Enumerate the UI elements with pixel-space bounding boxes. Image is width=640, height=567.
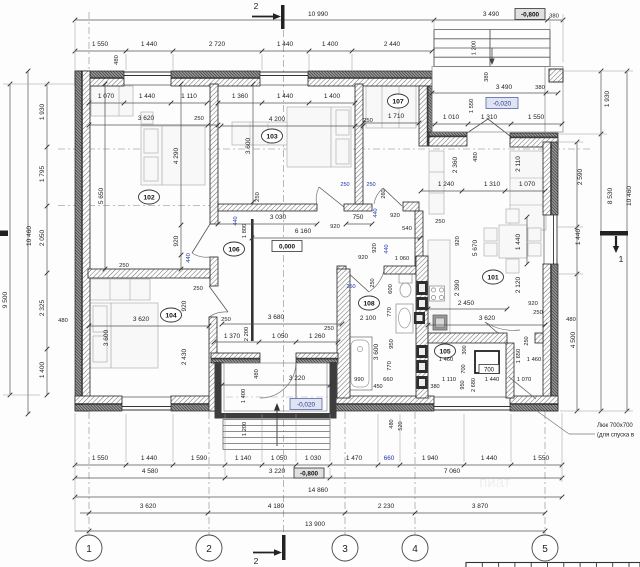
svg-text:1 440: 1 440	[141, 41, 158, 48]
outer wall top-left segment	[75, 71, 124, 78]
axis bubble 1	[76, 535, 102, 561]
svg-text:1 460: 1 460	[439, 357, 454, 363]
svg-text:108: 108	[363, 300, 375, 307]
svg-text:1 140: 1 140	[235, 455, 252, 462]
svg-text:3 620: 3 620	[133, 316, 150, 323]
extension lines top windows	[125, 54, 127, 70]
room label 104	[161, 308, 182, 322]
svg-text:250: 250	[366, 182, 375, 188]
svg-text:920: 920	[173, 235, 180, 246]
svg-text:1 110: 1 110	[181, 93, 197, 100]
svg-text:1: 1	[619, 254, 624, 264]
svg-text:1 550: 1 550	[469, 99, 475, 114]
bathtub room 108	[348, 337, 372, 390]
axis 2 dashed line bottom	[208, 412, 210, 536]
interior wall stub below door 102	[210, 257, 218, 286]
porch interior dash line	[226, 396, 328, 398]
svg-text:660: 660	[384, 455, 395, 462]
svg-text:102: 102	[143, 194, 155, 201]
outer wall top-middle segment	[171, 71, 260, 78]
svg-text:2 450: 2 450	[458, 300, 475, 307]
svg-text:5 670: 5 670	[472, 239, 479, 256]
svg-text:104: 104	[165, 312, 177, 319]
window W2 room 103	[260, 71, 308, 73]
svg-text:1 440: 1 440	[277, 41, 294, 48]
svg-text:2 430: 2 430	[181, 348, 188, 365]
svg-text:950: 950	[460, 380, 466, 389]
svg-text:750: 750	[353, 214, 364, 221]
top tier 3 dims room 102	[89, 102, 207, 104]
porch west wall	[215, 362, 222, 419]
svg-text:480: 480	[254, 369, 260, 379]
svg-text:250: 250	[194, 116, 204, 122]
outer wall bottom-right segment	[510, 405, 558, 412]
svg-text:2: 2	[206, 544, 212, 555]
svg-text:4 580: 4 580	[142, 468, 159, 475]
bottom tier 4 dims	[80, 512, 545, 514]
svg-text:1: 1	[86, 544, 92, 555]
svg-text:520: 520	[398, 421, 404, 430]
svg-text:10 460: 10 460	[626, 186, 633, 206]
axis 1 dashed line bottom	[88, 412, 90, 536]
interior wall bathroom north east piece	[384, 266, 416, 274]
svg-text:700: 700	[484, 367, 495, 373]
porch south wall west piece	[211, 359, 260, 363]
svg-text:1 460: 1 460	[527, 357, 542, 363]
room 102 interior dims	[104, 84, 106, 269]
svg-text:920: 920	[181, 300, 188, 311]
svg-text:1 440: 1 440	[141, 455, 158, 462]
svg-text:4: 4	[412, 544, 418, 555]
entry wardrobe room 101	[510, 151, 546, 230]
svg-text:4 200: 4 200	[269, 116, 286, 123]
door 105 extra leaf	[509, 377, 536, 399]
svg-text:4 500: 4 500	[570, 331, 577, 348]
door room 105 boiler	[485, 322, 506, 340]
section 1 right mark	[600, 231, 628, 236]
svg-text:250: 250	[255, 192, 261, 202]
svg-text:1 795: 1 795	[39, 165, 46, 182]
interior wall room104 east lower	[209, 317, 217, 411]
svg-text:1 240: 1 240	[438, 181, 455, 188]
svg-text:600: 600	[388, 284, 394, 294]
horizontal dash-dot reference line mid	[58, 205, 210, 207]
svg-text:250: 250	[221, 317, 231, 323]
axis 4 dashed line bottom	[414, 412, 416, 536]
right tier 3 dim 10 460	[626, 71, 628, 411]
corridor interior dims	[218, 223, 317, 225]
wardrobe room 102	[91, 86, 133, 116]
svg-text:2 680: 2 680	[471, 378, 477, 392]
right tier 2 dims 1 930 8 530	[600, 71, 602, 411]
svg-text:1 800: 1 800	[242, 224, 248, 239]
svg-text:3 680: 3 680	[268, 314, 285, 321]
svg-text:2 100: 2 100	[360, 315, 377, 322]
svg-text:1 440: 1 440	[277, 93, 294, 100]
room 104 interior dims	[89, 325, 209, 327]
axis bubble 4	[402, 535, 428, 561]
svg-text:250: 250	[533, 310, 543, 316]
svg-text:2 360: 2 360	[452, 156, 459, 173]
top-right entrance stairs	[434, 29, 550, 31]
top tier 3 dims room 103	[218, 102, 355, 104]
svg-text:4 290: 4 290	[173, 147, 180, 164]
svg-text:2: 2	[254, 1, 259, 11]
axis bubble 5	[532, 535, 558, 561]
outer wall top-right segment	[308, 71, 432, 78]
toilet room 108	[399, 273, 412, 283]
svg-text:1 440: 1 440	[139, 93, 156, 100]
bed room 103	[287, 107, 351, 167]
extension lines bottom	[125, 414, 127, 462]
window W1 room 102	[124, 71, 171, 73]
room 103 interior dims	[252, 84, 254, 204]
hatch note leader line	[537, 411, 569, 434]
hall partition line	[251, 219, 254, 341]
svg-text:1 110: 1 110	[442, 377, 456, 383]
top porch slab outline	[432, 67, 563, 133]
svg-text:700: 700	[461, 364, 467, 373]
svg-text:-0,800: -0,800	[300, 470, 319, 477]
svg-text:0,000: 0,000	[279, 243, 295, 250]
svg-text:1 440: 1 440	[481, 455, 498, 462]
right tier 1 dims 2 590 1 440 4 500	[576, 142, 578, 411]
svg-text:106: 106	[228, 246, 240, 253]
svg-text:1 200: 1 200	[472, 41, 478, 56]
svg-text:1 310: 1 310	[484, 181, 501, 188]
porch interior dims	[214, 341, 338, 343]
dining table room 101	[499, 225, 527, 258]
svg-text:1 470: 1 470	[346, 455, 363, 462]
section 2 mark top	[281, 5, 285, 29]
svg-text:250: 250	[324, 326, 334, 332]
dresser room 103	[232, 122, 287, 145]
svg-text:1 050: 1 050	[272, 333, 289, 340]
svg-text:950: 950	[389, 339, 395, 349]
svg-text:-0,020: -0,020	[297, 401, 316, 408]
vent shaft blocks	[417, 281, 428, 295]
axis 1 dashed line top	[88, 12, 90, 70]
svg-text:250: 250	[119, 263, 129, 269]
svg-text:6 160: 6 160	[295, 228, 312, 235]
entry door leaf	[467, 119, 488, 133]
svg-text:1 070: 1 070	[98, 93, 115, 100]
svg-text:260: 260	[381, 189, 387, 198]
svg-text:(для спуска в: (для спуска в	[597, 433, 634, 439]
svg-text:2 110: 2 110	[515, 156, 522, 172]
svg-text:450: 450	[373, 384, 382, 390]
svg-text:1 260: 1 260	[309, 333, 326, 340]
svg-text:2 720: 2 720	[209, 41, 226, 48]
window W3 room 104	[122, 409, 171, 411]
svg-text:480: 480	[58, 318, 68, 324]
svg-text:3 620: 3 620	[138, 115, 155, 122]
boiler unit	[475, 351, 499, 373]
svg-text:3 220: 3 220	[269, 468, 286, 475]
interior wall boiler east	[506, 343, 514, 398]
room 102 width dim 3 620	[89, 124, 218, 126]
svg-text:1 650: 1 650	[516, 349, 522, 364]
svg-text:3 600: 3 600	[103, 329, 110, 346]
svg-text:1 370: 1 370	[224, 333, 241, 340]
svg-text:920: 920	[528, 301, 538, 307]
svg-text:107: 107	[392, 98, 404, 105]
porch entry arrow	[276, 410, 278, 446]
svg-text:101: 101	[487, 274, 499, 281]
svg-text:1 070: 1 070	[519, 181, 536, 188]
svg-text:13 900: 13 900	[305, 521, 325, 528]
room label 103	[262, 129, 283, 143]
room label 108	[359, 296, 380, 310]
room 103 width dim 4 200	[221, 125, 363, 127]
washbasin room 108	[396, 304, 413, 333]
svg-text:1 930: 1 930	[39, 103, 46, 120]
left tier 2 dim 10 460	[27, 71, 29, 414]
bottom tier 5 dim 13 900	[75, 530, 545, 532]
outer wall west	[75, 71, 82, 411]
svg-text:-0,020: -0,020	[493, 100, 512, 107]
svg-text:440: 440	[233, 216, 239, 225]
svg-text:3 220: 3 220	[289, 375, 306, 382]
window height dim 1 440	[526, 217, 528, 264]
svg-text:990: 990	[354, 377, 364, 383]
room label 105	[435, 344, 456, 358]
svg-text:3 870: 3 870	[472, 503, 489, 510]
svg-text:1 440: 1 440	[485, 377, 500, 383]
axis 3 dashed inside bathroom	[344, 278, 346, 394]
svg-text:770: 770	[387, 307, 393, 317]
dining chairs	[506, 209, 519, 223]
svg-text:920: 920	[358, 255, 368, 261]
svg-text:440: 440	[373, 208, 379, 217]
outer wall bottom-left segment	[75, 405, 122, 412]
svg-text:920: 920	[455, 236, 461, 246]
room label 101	[483, 270, 504, 284]
axis bubble 2	[196, 535, 222, 561]
kitchen stove	[430, 286, 445, 301]
svg-text:1 010: 1 010	[443, 114, 460, 121]
horizontal dash-dot reference line upper	[58, 148, 592, 150]
svg-text:250: 250	[193, 286, 203, 292]
svg-text:5 650: 5 650	[98, 187, 105, 204]
svg-text:1 400: 1 400	[39, 361, 46, 378]
door room 102	[192, 224, 210, 253]
svg-text:3 490: 3 490	[483, 11, 500, 18]
bed room 104	[90, 303, 158, 368]
svg-text:440: 440	[384, 244, 390, 253]
svg-text:4 180: 4 180	[268, 503, 285, 510]
room label 107	[388, 94, 409, 108]
window W5 east wall	[556, 215, 558, 264]
section 1 left end mark	[0, 231, 8, 237]
svg-text:770: 770	[387, 361, 393, 371]
svg-text:480: 480	[473, 152, 479, 162]
svg-text:380: 380	[430, 384, 439, 390]
svg-text:1 060: 1 060	[395, 256, 410, 262]
interior wall between room 102 and 104	[88, 269, 210, 278]
svg-text:1 400: 1 400	[324, 93, 341, 100]
svg-text:1 550: 1 550	[528, 114, 545, 121]
svg-text:250: 250	[346, 284, 355, 290]
svg-text:3 030: 3 030	[270, 214, 287, 221]
svg-text:2 590: 2 590	[577, 168, 584, 185]
porch door swing	[260, 362, 296, 398]
interior wall between rooms 102 and 103/corridor	[210, 84, 218, 224]
svg-text:2 120: 2 120	[515, 276, 522, 293]
svg-text:380: 380	[549, 14, 559, 20]
section axis 2 vertical dash-dot line	[283, 30, 285, 534]
porch south wall east piece	[296, 359, 338, 363]
porch inner outline	[224, 363, 327, 411]
door room 108 bathroom	[346, 271, 369, 292]
left tier 3 dims	[46, 84, 48, 395]
interior wall kitchen west with vent shafts	[416, 256, 428, 398]
svg-text:2 230: 2 230	[378, 503, 395, 510]
svg-text:2 200: 2 200	[244, 327, 250, 342]
bottom exterior stairs	[223, 419, 330, 421]
svg-text:1 440: 1 440	[515, 233, 522, 250]
column near boiler door	[535, 333, 543, 343]
svg-text:2 440: 2 440	[384, 41, 401, 48]
svg-text:440: 440	[186, 253, 192, 263]
wardrobe room 104	[90, 279, 150, 300]
outer wall east upper	[552, 142, 559, 215]
svg-text:10 990: 10 990	[308, 11, 328, 18]
entry wall west piece	[429, 132, 467, 136]
interior wall corridor-103 east part	[344, 204, 372, 211]
interior wall corridor east upper	[415, 211, 423, 266]
bottom elevation box -0,800	[294, 468, 324, 478]
svg-text:14 860: 14 860	[308, 487, 328, 494]
svg-text:105: 105	[439, 348, 451, 355]
svg-text:1 550: 1 550	[92, 455, 109, 462]
outer wall east lower	[552, 264, 559, 411]
room label 106	[224, 242, 245, 256]
svg-text:250: 250	[340, 182, 349, 188]
svg-text:2 390: 2 390	[454, 279, 461, 296]
svg-text:480: 480	[114, 55, 120, 65]
svg-text:920: 920	[372, 243, 378, 253]
svg-text:10 460: 10 460	[26, 226, 33, 246]
room label 102	[139, 190, 160, 204]
svg-text:380: 380	[535, 85, 545, 91]
svg-text:1 400: 1 400	[322, 41, 339, 48]
svg-text:Люк 700х700: Люк 700х700	[597, 423, 633, 429]
top tier 2 dim line	[75, 50, 432, 52]
top tier 1 dim line 10 990 / 3 490 / 380	[75, 19, 563, 21]
svg-text:1 930: 1 930	[604, 90, 611, 107]
svg-text:3 600: 3 600	[373, 343, 380, 360]
room 107 width dim 1 710	[363, 122, 419, 124]
outer wall bottom right block west part	[334, 405, 434, 412]
section 2 mark bottom	[282, 535, 286, 560]
porch descend arrow	[491, 48, 493, 60]
svg-text:1 550: 1 550	[533, 455, 550, 462]
interior wall bathroom west	[337, 269, 350, 398]
porch elevation box -0,020	[486, 98, 518, 109]
svg-text:300: 300	[462, 345, 468, 354]
porch south wall	[215, 413, 337, 419]
porch elevation box -0,020 bottom	[290, 399, 322, 410]
porch entry row dims	[432, 123, 562, 125]
svg-text:1 200: 1 200	[242, 422, 248, 437]
kitchen counter row	[428, 240, 450, 333]
interior wall 107 south piece	[403, 202, 419, 211]
svg-text:1 940: 1 940	[422, 455, 439, 462]
porch pillar	[549, 69, 563, 82]
bottom tier 3 dim 14 860	[75, 496, 562, 498]
interior wall bathroom north west piece	[337, 266, 346, 274]
svg-text:1 070: 1 070	[517, 377, 532, 383]
svg-text:540: 540	[402, 226, 412, 232]
svg-text:480: 480	[389, 419, 395, 428]
svg-text:1 310: 1 310	[481, 114, 498, 121]
outer wall northeast vertical at porch	[428, 86, 432, 146]
wardrobe room 107	[366, 86, 416, 128]
svg-text:9 500: 9 500	[2, 291, 9, 308]
svg-text:480: 480	[566, 317, 576, 323]
interior wall living-boiler	[428, 333, 507, 343]
top porch width dim 3 490	[432, 92, 558, 94]
svg-text:7 060: 7 060	[444, 468, 461, 475]
door room 104	[209, 286, 228, 312]
outer wall bottom left-of-porch segment	[171, 405, 217, 412]
axis bubble 3	[332, 535, 358, 561]
svg-text:920: 920	[390, 213, 400, 219]
svg-text:1 710: 1 710	[388, 113, 405, 120]
nightstand room 102	[141, 112, 153, 124]
svg-text:3: 3	[342, 544, 348, 555]
kitchen counter north	[429, 151, 444, 214]
svg-text:1 360: 1 360	[232, 93, 249, 100]
axis 3 dashed line bottom	[344, 412, 346, 536]
svg-text:250: 250	[370, 278, 376, 287]
svg-text:3 490: 3 490	[496, 84, 513, 91]
extension lines outer corners	[74, 22, 76, 70]
svg-text:2 050: 2 050	[39, 229, 46, 246]
door room 103	[319, 187, 344, 207]
svg-text:1 030: 1 030	[305, 455, 322, 462]
svg-text:2 325: 2 325	[39, 299, 46, 316]
bottom tier 1 dims	[75, 464, 562, 466]
svg-text:3 620: 3 620	[479, 315, 496, 322]
interior wall corridor-103 west part	[218, 204, 317, 211]
svg-text:8 530: 8 530	[607, 187, 614, 204]
svg-text:-0,800: -0,800	[521, 11, 540, 18]
svg-text:3 600: 3 600	[245, 137, 252, 154]
svg-text:5: 5	[542, 544, 548, 555]
entry wall east piece	[510, 133, 558, 137]
axis 5 dashed line bottom	[544, 412, 546, 536]
bottom tier 2 dims	[75, 477, 562, 479]
svg-text:1 590: 1 590	[191, 455, 208, 462]
bed room 102	[141, 126, 205, 185]
svg-text:250: 250	[524, 336, 530, 345]
svg-text:380: 380	[484, 72, 490, 82]
svg-text:250: 250	[435, 219, 445, 225]
svg-text:пиат: пиат	[479, 474, 511, 491]
svg-text:660: 660	[383, 377, 393, 383]
svg-text:1 440: 1 440	[575, 228, 582, 245]
svg-text:1 400: 1 400	[241, 389, 247, 404]
interior wall between 103 and 107	[355, 84, 363, 204]
svg-text:1 050: 1 050	[271, 455, 288, 462]
svg-text:2: 2	[254, 556, 259, 566]
porch east wall	[330, 362, 337, 419]
elevation box 0,000	[272, 241, 302, 252]
svg-text:1 550: 1 550	[92, 41, 109, 48]
svg-text:920: 920	[330, 224, 340, 230]
